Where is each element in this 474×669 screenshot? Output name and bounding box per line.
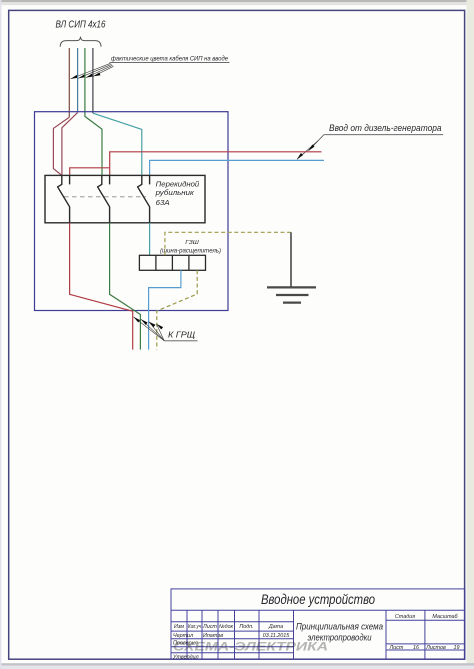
svg-text:Принципиальная схема: Принципиальная схема [296, 622, 383, 632]
svg-text:Подп.: Подп. [239, 624, 253, 630]
svg-text:Дата: Дата [268, 624, 283, 630]
svg-text:Ипатов: Ипатов [203, 633, 223, 639]
svg-text:электропроводки: электропроводки [308, 633, 372, 643]
svg-text:Масштаб: Масштаб [432, 614, 458, 620]
svg-text:Проверил: Проверил [173, 641, 198, 647]
svg-text:(шина-расщепитель): (шина-расщепитель) [160, 248, 221, 255]
svg-text:16: 16 [413, 645, 419, 651]
svg-text:ГЗШ: ГЗШ [185, 240, 199, 246]
svg-text:Лист: Лист [202, 624, 217, 630]
svg-text:Стадия: Стадия [395, 614, 415, 620]
svg-text:19: 19 [454, 645, 460, 651]
svg-text:63А: 63А [156, 199, 170, 207]
svg-text:Листов: Листов [425, 645, 446, 651]
svg-text:№док: №док [219, 624, 233, 630]
svg-text:Ввод от дизель-генератора: Ввод от дизель-генератора [329, 123, 442, 134]
svg-text:Перекидной: Перекидной [156, 180, 200, 188]
svg-text:03.11.2015: 03.11.2015 [263, 633, 291, 639]
svg-text:Кол.уч: Кол.уч [188, 624, 201, 630]
svg-text:К ГРЩ: К ГРЩ [168, 330, 195, 340]
svg-text:Изм: Изм [174, 624, 184, 630]
svg-text:фактические цвета кабеля СИП н: фактические цвета кабеля СИП на вводе [111, 55, 228, 63]
svg-text:ВЛ СИП 4х16: ВЛ СИП 4х16 [56, 20, 106, 31]
svg-text:Утвердил: Утвердил [172, 654, 199, 660]
svg-text:Чертил: Чертил [173, 633, 193, 639]
svg-text:рубильник: рубильник [155, 189, 195, 197]
svg-text:Лист: Лист [389, 645, 404, 651]
svg-text:Вводное устройство: Вводное устройство [261, 592, 375, 607]
